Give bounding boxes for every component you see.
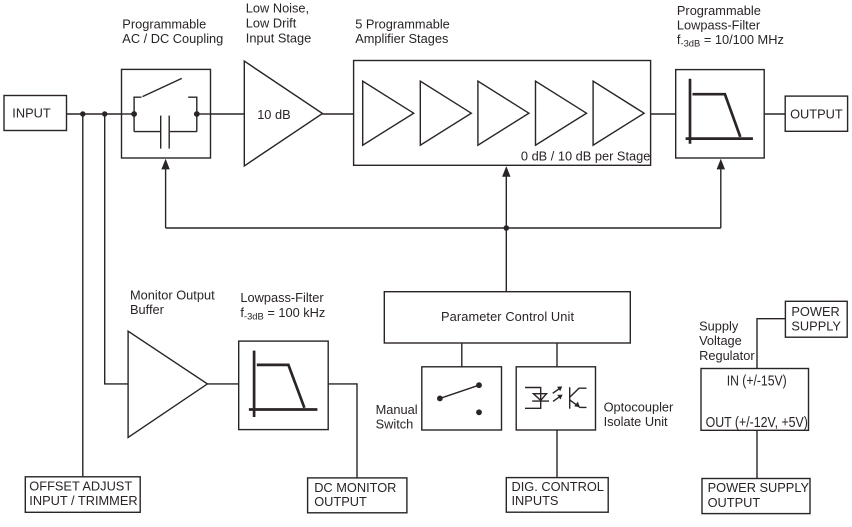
wire: filter to OUTPUT [764,113,785,115]
svg-text:OUTPUT: OUTPUT [790,107,843,122]
svg-text:Programmable: Programmable [122,16,206,31]
svg-text:5 Programmable: 5 Programmable [355,16,450,31]
svg-text:Parameter Control Unit: Parameter Control Unit [441,309,574,324]
op-amp U2: monitor output buffer triangle [128,331,207,437]
svg-text:Lowpass-Filter: Lowpass-Filter [677,18,761,33]
svg-text:Voltage: Voltage [699,333,742,348]
wire: PCU to manual switch [461,343,463,367]
block: supply voltage regulator box [701,369,809,431]
op-amp: stage 1 triangle [363,81,414,145]
block: manual switch box [422,367,502,430]
svg-text:OFFSET ADJUST: OFFSET ADJUST [29,478,132,493]
svg-text:DIG. CONTROL: DIG. CONTROL [512,479,604,494]
wire: coupling box to input stage amp [211,113,245,115]
svg-text:10 dB: 10 dB [257,107,290,122]
label: Supply Voltage Regulator [699,318,755,363]
svg-text:Isolate Unit: Isolate Unit [604,414,668,429]
svg-text:OUTPUT: OUTPUT [708,495,761,510]
block: monitor lowpass filter box [239,341,329,430]
capacitor C1 inside coupling box [134,116,197,149]
svg-text:Switch: Switch [376,416,414,431]
svg-text:INPUTS: INPUTS [512,493,559,508]
wire: feedback to lowpass filter vertical [720,169,722,229]
label: Low Noise, Low Drift Input Stage [246,1,311,46]
svg-text:INPUT: INPUT [12,106,51,121]
block: programmable AC/DC coupling box [122,69,211,158]
svg-text:DC MONITOR: DC MONITOR [314,480,396,495]
label: Optocoupler Isolate Unit [604,399,674,429]
block: POWER SUPPLY box [785,301,847,337]
block: optocoupler box [516,367,595,430]
light arrows of optocoupler [553,386,563,401]
svg-text:f-3dB = 10/100 MHz: f-3dB = 10/100 MHz [677,32,784,49]
wire: coupling internal right stub [197,113,211,115]
block: OFFSET ADJUST INPUT / TRIMMER box [25,477,140,513]
block: Parameter Control Unit box [384,292,630,343]
svg-text:Low Noise,: Low Noise, [246,1,309,16]
label: Monitor Output Buffer [130,288,215,317]
svg-text:INPUT / TRIMMER: INPUT / TRIMMER [29,493,137,508]
block: programmable lowpass filter box [676,70,765,158]
LED D1 inside optocoupler [525,388,549,409]
op-amp: stage 5 triangle [593,81,644,145]
svg-text:Low Drift: Low Drift [246,16,297,31]
node: junction dot monitor tap [102,111,107,116]
label: Programmable AC / DC Coupling [122,16,223,46]
wire: feedback to amplifier stages vertical [505,176,507,229]
block: DC MONITOR OUTPUT box [308,478,407,513]
svg-text:Input Stage: Input Stage [246,30,311,45]
svg-text:f-3dB = 100 kHz: f-3dB = 100 kHz [240,305,325,322]
svg-text:Lowpass-Filter: Lowpass-Filter [240,290,324,305]
svg-text:Supply: Supply [699,318,739,333]
svg-text:Optocoupler: Optocoupler [604,399,674,414]
arrowhead into amplifier stages box [502,166,510,177]
svg-text:Manual: Manual [376,402,418,417]
op-amp: stage 2 triangle [420,81,471,145]
block: 5 programmable amplifier stages box [354,61,651,166]
filter response symbol (right lowpass) [686,79,753,144]
svg-text:SUPPLY: SUPPLY [791,319,841,334]
wire: coupling internal left stub [122,113,135,115]
wire: power supply to regulator [757,319,785,369]
svg-text:POWER: POWER [791,304,839,319]
svg-text:Monitor Output: Monitor Output [130,288,215,303]
node: junction dot offset-adjust tap [80,111,85,116]
svg-text:Amplifier Stages: Amplifier Stages [355,31,448,46]
switch S1 inside coupling box [134,78,197,131]
svg-text:IN (+/-15V): IN (+/-15V) [727,374,787,390]
label: Lowpass-Filter f-3dB = 100 kHz [240,290,325,321]
phototransistor Q1 inside optocoupler [570,387,587,409]
arrowhead into coupling box [161,159,169,170]
INPUT box [4,96,67,131]
block: DIG. CONTROL INPUTS box [506,478,608,513]
svg-text:Buffer: Buffer [130,302,165,317]
wire: input stage to amplifier stages box [323,113,354,115]
svg-text:Programmable: Programmable [677,3,761,18]
op-amp: stage 3 triangle [478,81,529,145]
op-amp U1: 10 dB input stage triangle [244,61,322,166]
svg-text:OUTPUT: OUTPUT [314,494,367,509]
wire: PCU to optocoupler [556,343,558,367]
wire: monitor filter to DC MONITOR OUTPUT [328,384,357,478]
node: coupling input node dot [131,111,137,117]
wire: amplifier stages to lowpass filter [651,113,676,115]
node: feedback junction dot [504,225,510,231]
wire: feedback to coupling box vertical [165,168,167,228]
filter response symbol (monitor lowpass) [249,351,318,417]
OUTPUT box [785,96,847,131]
svg-text:POWER SUPPLY: POWER SUPPLY [708,480,810,495]
label: Manual Switch [376,402,418,432]
switch S2 symbol [437,382,482,415]
svg-text:AC / DC Coupling: AC / DC Coupling [122,31,223,46]
block: POWER SUPPLY OUTPUT box [702,479,810,514]
wire: buffer to monitor lowpass filter [207,383,238,385]
arrowhead into lowpass filter box [717,159,725,170]
wire: INPUT to coupling box [67,113,122,115]
svg-text:OUT (+/-12V, +5V): OUT (+/-12V, +5V) [706,415,808,431]
op-amp: stage 4 triangle [536,81,587,145]
node: coupling output node dot [194,111,200,117]
wire: parameter control unit to feedback bus [505,228,507,292]
wire: feedback bus horizontal [166,227,721,229]
wire: regulator to power supply output [756,430,758,478]
wire: input tap down to monitor buffer [105,114,128,384]
svg-text:Regulator: Regulator [699,348,755,363]
label: Programmable Lowpass-Filter f-3dB = 10/100 MHz [677,3,784,48]
label: 5 Programmable Amplifier Stages [355,16,450,46]
wire: input tap down to offset adjust [82,114,84,477]
wire: optocoupler to DIG. CONTROL INPUTS [556,430,558,478]
svg-text:0 dB / 10 dB per Stage: 0 dB / 10 dB per Stage [521,149,650,164]
